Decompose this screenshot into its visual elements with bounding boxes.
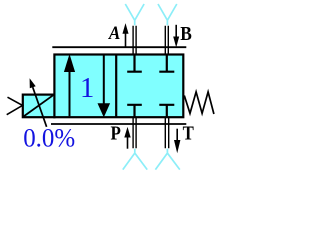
wire: double connection lines top-right (port B)	[165, 26, 168, 54]
valve V1 position 2: blocked port plug top-left (A)	[127, 55, 142, 72]
spring: return spring at right side	[184, 92, 214, 114]
svg-text:0.0%: 0.0%	[23, 123, 75, 152]
valve V1 position 1: flow arrow up (P to A)	[69, 71, 71, 116]
solenoid: pilot mark (open arrow) at left	[7, 97, 23, 115]
node: open connection mark (cyan V) top-left above port A line	[125, 4, 144, 25]
valve V1 position 2: blocked port plug bottom-right (T)	[159, 105, 174, 117]
node: open connection mark (cyan caret) bottom-left below port P line	[123, 149, 147, 170]
wire: bottom rail line below valve	[51, 123, 186, 125]
port B: arrow down	[175, 25, 177, 37]
svg-text:B: B	[180, 23, 192, 45]
svg-text:A: A	[108, 23, 120, 44]
valve V1 position 1: flow arrow down (B to T)	[103, 56, 105, 104]
node: open connection mark (cyan caret) bottom-right below port T line	[155, 149, 179, 170]
solenoid: diagonal coil line	[24, 95, 54, 116]
wire: double connection lines top-left (port A)	[133, 26, 136, 54]
port P: arrow up	[127, 137, 129, 149]
valve V1 position 2: blocked port plug top-right (B)	[159, 55, 174, 72]
port T: arrow down	[176, 129, 178, 141]
wire: double connection lines bottom-right (port T)	[165, 118, 168, 148]
solenoid: proportional solenoid box	[23, 95, 55, 118]
wire: top rail line above valve	[52, 46, 186, 48]
solenoid: proportional adjustment arrow shaft	[33, 87, 47, 127]
svg-text:1: 1	[80, 73, 94, 104]
solenoid: proportional adjustment arrow head	[30, 78, 36, 88]
svg-text:T: T	[183, 124, 194, 145]
valve V1 position 2: blocked port plug bottom-left (P)	[127, 105, 142, 117]
valve V1: body of 4/2 proportional directional valve	[54, 55, 183, 118]
wire: double connection lines bottom-left (port P)	[133, 118, 136, 148]
svg-text:P: P	[111, 123, 121, 144]
node: open connection mark (cyan V) top-right above port B line	[158, 4, 177, 25]
port A: arrow up	[125, 33, 127, 48]
valve V1: position divider line	[115, 55, 117, 118]
